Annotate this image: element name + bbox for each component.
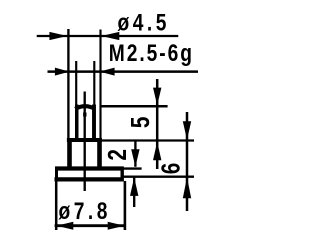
svg-text:ø4.5: ø4.5: [118, 8, 170, 36]
svg-text:ø7.8: ø7.8: [59, 197, 111, 225]
svg-text:6: 6: [157, 163, 186, 175]
svg-text:M2.5-6g: M2.5-6g: [109, 39, 194, 67]
svg-text:5: 5: [126, 117, 155, 129]
svg-text:2: 2: [103, 149, 132, 161]
